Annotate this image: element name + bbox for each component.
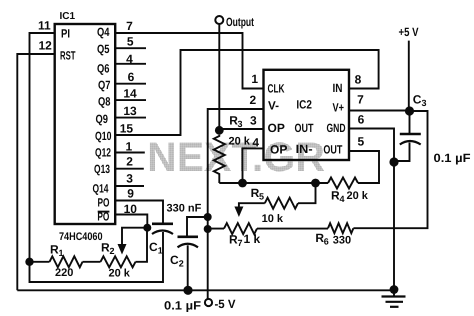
svg-text:5: 5 xyxy=(357,134,364,148)
wire Q9 pin13 stub xyxy=(115,117,146,119)
wire Q7 pin6 stub xyxy=(115,83,146,85)
wire PO pin9 to C1 top xyxy=(115,201,163,224)
wire Q12 pin1 stub xyxy=(115,152,145,154)
node +5V junction dot xyxy=(405,106,414,115)
wire R2 wiper from junction xyxy=(122,228,147,245)
wire Q10 pin15 to IC2 IN pin8 xyxy=(115,50,378,135)
svg-text:13: 13 xyxy=(123,104,137,118)
wire GND pin6 down to ground xyxy=(349,129,394,290)
svg-text:C: C xyxy=(413,93,422,107)
node C2 to rail junction dot xyxy=(183,286,192,295)
svg-text:7: 7 xyxy=(126,19,133,33)
wire +5V down xyxy=(408,41,410,111)
svg-text:6: 6 xyxy=(324,237,329,247)
svg-text:2: 2 xyxy=(126,155,133,169)
node R2/PO-bar junction dot xyxy=(143,224,151,232)
svg-text:6: 6 xyxy=(358,113,365,127)
wire Q8 pin14 stub xyxy=(115,99,146,101)
IC1 74HC4060 body xyxy=(55,24,115,224)
svg-text:7: 7 xyxy=(238,238,243,248)
svg-text:20 k: 20 k xyxy=(347,190,369,202)
wire Q5 pin5 stub xyxy=(115,47,146,49)
-5V terminal xyxy=(205,299,212,306)
wire R1 to R2 xyxy=(83,261,101,263)
svg-text:IN: IN xyxy=(333,81,343,95)
svg-text:3: 3 xyxy=(126,172,133,186)
svg-text:OP: OP xyxy=(268,121,285,135)
svg-text:74HC4060: 74HC4060 xyxy=(59,231,103,243)
svg-text:8: 8 xyxy=(355,73,362,87)
svg-text:6: 6 xyxy=(128,70,135,84)
svg-text:V+: V+ xyxy=(333,100,345,114)
svg-text:1: 1 xyxy=(59,248,64,258)
svg-text:9: 9 xyxy=(127,187,134,201)
svg-text:7: 7 xyxy=(357,93,364,107)
svg-text:Q6: Q6 xyxy=(97,62,110,76)
svg-text:GND: GND xyxy=(327,121,346,135)
-5V vertical junction dot upper (C2 tap) xyxy=(204,213,212,221)
svg-text:4: 4 xyxy=(340,194,345,204)
wiper arrowhead onto R2 xyxy=(118,244,127,255)
Output terminal xyxy=(215,16,223,24)
svg-text:IN-: IN- xyxy=(296,142,313,156)
svg-text:PO: PO xyxy=(98,196,110,210)
capacitor C2 wiring from V- line xyxy=(187,217,208,236)
wire V+ pin7 to +5V node xyxy=(349,110,410,112)
svg-text:2: 2 xyxy=(179,259,184,269)
wire R5 branch down from dot xyxy=(298,183,316,203)
resistor R6 330 xyxy=(328,223,353,233)
wire feedback line y=183 xyxy=(219,182,328,184)
ground xyxy=(390,285,399,294)
svg-text:CLK: CLK xyxy=(268,82,285,96)
node C3/GND junction dot xyxy=(389,157,398,166)
-5V vertical junction dot lower (R7 tap) xyxy=(204,225,212,233)
capacitor C1 xyxy=(152,223,173,226)
svg-text:Q14: Q14 xyxy=(93,182,109,196)
wire pin12 RST down left side to -5V rail xyxy=(17,54,54,290)
svg-text:IC2: IC2 xyxy=(296,98,312,112)
svg-text:330: 330 xyxy=(333,235,351,247)
wire Q14 pin3 stub xyxy=(115,185,144,187)
svg-text:1: 1 xyxy=(158,246,163,256)
svg-text:3: 3 xyxy=(422,98,427,108)
svg-text:3: 3 xyxy=(238,119,243,129)
resistor R1 220 xyxy=(30,261,50,263)
svg-text:0.1 µF: 0.1 µF xyxy=(164,299,201,313)
svg-text:4: 4 xyxy=(252,135,259,149)
wire Q13 pin2 stub xyxy=(115,168,144,170)
svg-text:C: C xyxy=(149,240,158,254)
svg-text:1: 1 xyxy=(251,72,258,86)
svg-text:Output: Output xyxy=(226,15,254,29)
wire PO-bar pin10 down to junction xyxy=(115,215,147,228)
wire pin11 PI to node A xyxy=(30,33,55,262)
svg-text:20 k: 20 k xyxy=(229,135,251,147)
node A junction dot xyxy=(25,258,33,266)
svg-text:20 k: 20 k xyxy=(109,268,131,280)
resistor R7 1 k xyxy=(224,223,257,234)
wire R6 right up to +5V node xyxy=(353,111,427,228)
resistor R3 (20 k) vertical xyxy=(214,135,225,183)
-5V bottom rail xyxy=(17,289,394,291)
svg-text:10 k: 10 k xyxy=(262,213,284,225)
wire to R7 left xyxy=(208,228,224,230)
IC2 body xyxy=(264,70,350,160)
wire R2 right end up to junction xyxy=(136,228,148,262)
wire R5 left to wiper arrow of R7 xyxy=(239,203,265,208)
svg-text:-5 V: -5 V xyxy=(215,297,236,311)
svg-text:Q12: Q12 xyxy=(95,146,111,160)
wiper arrowhead onto R7 xyxy=(234,207,243,218)
resistor R4 20 k xyxy=(328,178,358,189)
svg-text:Q13: Q13 xyxy=(94,162,110,176)
svg-text:Q8: Q8 xyxy=(98,95,111,109)
node R5 junction dot xyxy=(311,179,320,188)
overline on second PO xyxy=(98,211,110,213)
svg-text:11: 11 xyxy=(38,19,51,33)
svg-text:3: 3 xyxy=(250,113,257,127)
svg-text:220: 220 xyxy=(55,267,73,279)
node OP junction dot xyxy=(215,126,224,135)
svg-text:V-: V- xyxy=(268,99,279,113)
resistor R2 20 k xyxy=(101,256,136,267)
wire Output down to OP node xyxy=(218,24,220,130)
svg-text:C: C xyxy=(170,253,179,267)
svg-text:OUT: OUT xyxy=(295,121,314,135)
svg-text:2: 2 xyxy=(110,246,115,256)
svg-text:IC1: IC1 xyxy=(60,11,76,22)
svg-text:Q4: Q4 xyxy=(97,25,110,39)
svg-text:Q9: Q9 xyxy=(96,112,109,126)
capacitor C3 xyxy=(409,111,411,133)
svg-text:+5 V: +5 V xyxy=(399,25,419,39)
svg-text:Q7: Q7 xyxy=(98,78,111,92)
svg-text:0.1 µF: 0.1 µF xyxy=(434,151,471,165)
capacitor C2 xyxy=(178,236,199,239)
wire Q6 pin4 stub xyxy=(115,63,146,65)
svg-text:Q5: Q5 xyxy=(97,42,110,56)
svg-text:OP: OP xyxy=(270,143,287,157)
svg-text:OUT: OUT xyxy=(323,143,342,157)
wire OUT pin5 to R4 right end xyxy=(349,151,379,183)
wire OP pin3 to node xyxy=(219,128,263,130)
svg-text:15: 15 xyxy=(120,121,134,135)
svg-text:2: 2 xyxy=(249,93,256,107)
wire R7 to R6 xyxy=(257,228,328,230)
wire V- pin2 to -5V terminal xyxy=(208,109,264,299)
svg-text:5: 5 xyxy=(127,34,134,48)
svg-text:PI: PI xyxy=(61,27,70,41)
svg-text:12: 12 xyxy=(39,39,53,53)
svg-text:14: 14 xyxy=(123,87,137,101)
svg-text:RST: RST xyxy=(60,49,76,63)
wire OP pin4 down to R network line xyxy=(243,148,264,183)
resistor R5 10 k xyxy=(265,198,298,209)
wire Q4 pin7 to IC2 CLK xyxy=(115,33,263,89)
svg-text:330 nF: 330 nF xyxy=(167,203,202,215)
svg-text:5: 5 xyxy=(259,192,264,202)
node pin4 junction dot xyxy=(238,179,247,188)
svg-text:Q10: Q10 xyxy=(95,129,112,143)
svg-text:1 k: 1 k xyxy=(244,232,261,246)
